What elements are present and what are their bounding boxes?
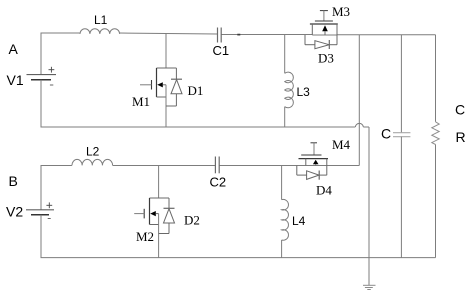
svg-text:B: B [9,173,18,189]
svg-text:D2: D2 [184,213,200,228]
svg-text:M2: M2 [136,229,154,244]
M1 mid horizontal [163,84,166,86]
svg-text:C: C [381,126,391,142]
M4 body stem [315,164,317,165]
ground [363,285,376,289]
M3 gate lead [323,11,325,21]
wire B top rail C2 to M4 [219,165,306,167]
capacitor C output column bottom [400,137,402,258]
svg-text:L3: L3 [297,85,311,99]
minus sign V2 [48,218,51,220]
M2 mid horizontal [156,213,159,215]
resistor R column bottom [435,145,437,258]
svg-text:L1: L1 [94,13,108,27]
svg-text:D3: D3 [318,51,334,66]
wire M2 drain from B rail [158,166,160,199]
wire M1 source to A bottom rail [165,85,167,127]
M1 gate bar [151,80,153,90]
transistor M4 [299,143,329,175]
svg-text:R: R [456,129,466,145]
M1 channel bar [156,68,158,97]
M3 body stem [324,31,326,35]
junction dash on A top rail [237,34,240,36]
wire output link from A top rail down to M4 right [358,35,360,166]
svg-text:M1: M1 [132,94,150,109]
M4 gate tick [311,142,318,144]
svg-text:M3: M3 [332,4,350,19]
M1 body arrow [157,82,163,87]
resistor R column top [435,35,437,122]
svg-text:A: A [9,41,19,57]
inductor L2 [72,159,113,165]
resistor R zigzag [432,122,439,145]
svg-text:M4: M4 [332,137,351,152]
battery V2 [26,210,54,215]
svg-text:C: C [455,102,465,118]
M2 bottom horizontal [150,224,159,226]
M4 left post [305,159,307,166]
diode D2 [159,198,175,234]
M3 gate tick [320,10,328,12]
wire A top rail C1 to M3 area [221,34,312,36]
inductor L1 [80,29,120,34]
capacitor C output column top [400,35,402,133]
capacitor C2 [215,157,219,174]
M2 top horizontal [150,197,170,199]
M1 top horizontal [157,67,177,69]
wire A top rail left (V1+ to C1) [41,33,80,75]
battery V1 [27,75,57,80]
svg-text:V2: V2 [6,204,23,220]
transistor M1 [140,33,176,127]
svg-text:V1: V1 [7,72,24,88]
transistor M2 [134,166,169,258]
capacitor C output plates [393,133,410,137]
diode D3 [305,35,337,49]
M3 right post [336,24,338,45]
svg-text:L4: L4 [292,214,306,228]
M2 body arrow [150,211,156,216]
wire A top rail M3 to R column [337,34,436,36]
wire A- down link to B bottom rail and ground [368,127,370,285]
wire V2- to B bottom rail [41,215,436,258]
svg-text:L2: L2 [86,145,100,159]
M3 body arrow [322,25,328,31]
wire B top rail left (V2+ to L2) [41,166,72,210]
wire M4 right to output link [327,165,360,167]
svg-text:D1: D1 [188,83,204,98]
wire A top rail under M3 channel [312,34,337,36]
M2 channel bar [149,198,151,225]
M1 bottom horizontal [157,96,167,98]
wire A bottom rail after hop [363,126,369,128]
M3 channel bar [310,23,338,25]
transistor M3 [310,11,338,45]
M2 gate lead [134,213,144,215]
svg-text:C1: C1 [213,43,230,58]
diode D4 [297,166,327,180]
wire M1 drain from rail [165,33,167,68]
inductor L4 [282,166,289,258]
wire A top rail L1 to C1 [120,33,218,34]
plus sign V1 [49,67,55,73]
wire V1- to A bottom rail [41,80,355,127]
svg-text:D4: D4 [316,183,332,198]
minus sign V1 [50,84,53,86]
M1 gate lead [140,84,152,86]
M4 gate bar [301,154,321,156]
M4 gate lead [313,143,315,155]
capacitor C1 [218,28,222,43]
M3 left post [311,24,313,35]
svg-text:C2: C2 [210,175,227,190]
diode D1 [166,68,182,106]
M2 gate bar [143,209,145,219]
M4 right post [326,159,328,176]
M4 body arrow [313,160,319,164]
wire B top rail under M4 channel [307,165,328,167]
wire hop A bottom rail over output link [355,123,363,127]
inductor L3 [285,35,294,128]
M4 channel bar [299,158,329,160]
plus sign V2 [46,202,52,208]
wire B top rail L2 to C2 [113,165,216,167]
M3 gate bar [315,20,333,22]
wire M2 source to B bottom rail [158,214,160,258]
